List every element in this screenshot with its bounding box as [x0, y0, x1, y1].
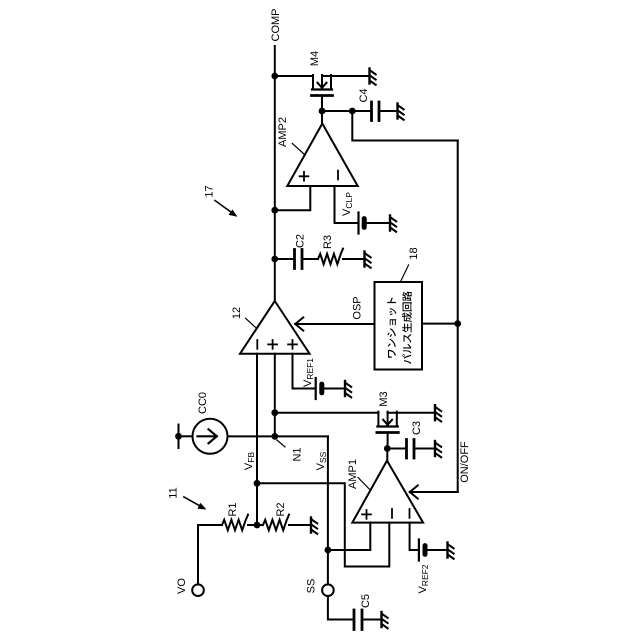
- wire M3 source to ground: [388, 412, 435, 414]
- svg-text:18: 18: [408, 247, 420, 259]
- svg-text:17: 17: [203, 185, 215, 197]
- wire AMP2 + input to COMP line: [275, 186, 311, 210]
- wire C4 to ground: [379, 110, 398, 112]
- pin AMP1 inverting - mark (right): [409, 509, 411, 518]
- wire R3 to ground: [343, 258, 365, 260]
- wire COMP main vertical line to comparator 12 output: [274, 46, 276, 301]
- svg-text:R1: R1: [227, 502, 239, 516]
- svg-text:C2: C2: [294, 234, 306, 248]
- comparator 12: [240, 301, 310, 354]
- text one-shot line2 パルス生成回路: [402, 291, 412, 364]
- wire COMP line to C2: [275, 258, 295, 260]
- pin AMP1 inverting - mark (middle): [391, 509, 393, 518]
- svg-text:M4: M4: [309, 51, 321, 66]
- wire C3 to ground: [414, 448, 435, 450]
- wire junction to R2: [257, 524, 263, 526]
- pin AMP2 noninverting + mark: [300, 172, 309, 181]
- svg-text:12: 12: [231, 307, 243, 319]
- ground at C5: [382, 612, 388, 628]
- wire CC0 output to N1 and VSS line: [228, 435, 328, 437]
- pin arrowhead ON/OFF into AMP1: [410, 485, 418, 498]
- svg-text:R2: R2: [275, 502, 287, 516]
- svg-text:N1: N1: [291, 447, 303, 461]
- text one-shot line1 ワンショット: [387, 298, 396, 358]
- svg-text:11: 11: [167, 487, 179, 498]
- svg-text:VO: VO: [176, 578, 188, 594]
- wire VCLP to ground: [364, 222, 390, 224]
- svg-text:SS: SS: [305, 579, 317, 594]
- node junction dot on COMP line at AMP2 +: [271, 207, 278, 214]
- ground at M4 source: [370, 69, 376, 85]
- block one-shot pulse generator box 18: [375, 282, 423, 370]
- ground at R2: [311, 518, 317, 534]
- svg-text:AMP2: AMP2: [277, 117, 289, 147]
- svg-text:C4: C4: [358, 88, 370, 102]
- node junction dot C2 tap on COMP line: [271, 256, 278, 263]
- wire VREF2 to ground: [425, 549, 448, 551]
- resistor R1: [222, 515, 248, 531]
- capacitor C2: [295, 250, 303, 269]
- ground at C4: [398, 104, 404, 120]
- pin 12 noninverting + mark (middle): [268, 340, 277, 349]
- wire R2 to ground: [289, 524, 311, 526]
- wire AMP1 right - input to VREF2: [410, 523, 419, 550]
- ground at M3: [435, 405, 441, 421]
- svg-text:AMP1: AMP1: [347, 459, 359, 489]
- wire 12 middle + input N1 line: [274, 354, 276, 437]
- wire 12 right + input to VREF1: [293, 354, 316, 389]
- transistor M3: [377, 412, 398, 449]
- wire AMP1 output node to C3: [387, 448, 406, 450]
- svg-text:ON/OFF: ON/OFF: [459, 441, 471, 483]
- capacitor C3: [407, 440, 415, 459]
- wire SS terminal to C5: [328, 596, 354, 620]
- pin AMP1 noninverting + mark: [362, 510, 371, 519]
- node junction dot VFB / AMP1 -: [254, 480, 261, 487]
- ground at VCLP: [390, 216, 396, 232]
- current source CC0: [193, 419, 228, 454]
- wire VREF1 to ground: [322, 388, 345, 390]
- wire CC0 supply lead with tick: [179, 425, 193, 449]
- battery VREF1: [316, 378, 322, 399]
- svg-text:R3: R3: [322, 235, 334, 249]
- terminal SS: [322, 584, 334, 596]
- terminal VO: [192, 584, 204, 596]
- ground at C3: [435, 441, 441, 457]
- wire VSS vertical line to SS terminal: [327, 436, 329, 584]
- transistor M4: [312, 75, 333, 111]
- wire AMP2 - input down to VCLP: [335, 186, 359, 223]
- wire ON/OFF vertical bus line: [457, 141, 459, 493]
- capacitor C5: [354, 610, 362, 630]
- node junction dot COMP / M4 drain: [271, 73, 278, 80]
- wire one-shot box input from ON/OFF bus: [422, 323, 458, 325]
- wire R1 to junction: [248, 524, 257, 526]
- node junction dot on ON/OFF bus at box: [454, 320, 461, 327]
- svg-text:OSP: OSP: [351, 296, 363, 319]
- node junction dot N1 / M3 drain wire: [271, 409, 278, 416]
- wire AMP2 output node to C4: [322, 110, 372, 112]
- ground at R3: [365, 252, 371, 268]
- svg-text:CC0: CC0: [197, 392, 209, 414]
- resistor R3: [318, 249, 343, 265]
- op-amp AMP1: [352, 461, 423, 523]
- node junction dot SS / AMP1 +: [325, 547, 332, 554]
- op-amp AMP2: [287, 124, 357, 187]
- svg-text:C5: C5: [360, 594, 372, 608]
- wire 12 inverting input VFB line down to R1/R2: [256, 354, 258, 525]
- wire VO up to R1: [198, 525, 222, 584]
- node junction dot AMP2 output / M4 gate: [319, 108, 326, 115]
- wire ON/OFF bus to AMP1 arrow input: [410, 491, 458, 493]
- resistor R2: [263, 515, 289, 531]
- node junction dot C4 tap: [349, 108, 356, 115]
- wire C2 to R3: [302, 258, 318, 260]
- wire AMP1 + input to SS node: [328, 523, 370, 550]
- battery VCLP: [359, 213, 365, 234]
- ground at VREF1: [345, 381, 351, 397]
- node junction dot AMP1 output / M3 gate / C3: [384, 445, 391, 452]
- node junction dot R1/R2/VFB: [254, 522, 261, 529]
- svg-text:COMP: COMP: [270, 9, 282, 42]
- pin 12 inverting - mark: [256, 340, 258, 349]
- svg-text:C3: C3: [411, 421, 423, 435]
- wire AMP1 output lead: [386, 449, 388, 462]
- ground at VREF2: [448, 543, 454, 559]
- node dot at CC0 supply tick: [175, 433, 182, 440]
- wire AMP1 middle - input loop to VFB node: [257, 483, 389, 566]
- wire N1 to M3 drain: [275, 412, 379, 414]
- wire M4 source to ground: [322, 75, 370, 77]
- wire M4 drain to COMP line: [275, 75, 313, 77]
- pin AMP2 inverting - mark: [337, 171, 339, 180]
- node junction dot N1 / CC0 / VSS: [271, 433, 278, 440]
- pin arrowhead OSP into comparator 12: [295, 317, 303, 330]
- pin 12 noninverting + mark (right): [288, 340, 297, 349]
- battery VREF2: [419, 540, 425, 561]
- wire OSP from one-shot box to comparator 12 arrow input: [295, 323, 374, 325]
- svg-text:M3: M3: [378, 391, 390, 406]
- wire AMP2 output lead: [321, 111, 323, 124]
- wire C5 to ground: [362, 619, 382, 621]
- wire ON/OFF net from C4 node down and right: [352, 111, 457, 141]
- capacitor C4: [372, 102, 380, 121]
